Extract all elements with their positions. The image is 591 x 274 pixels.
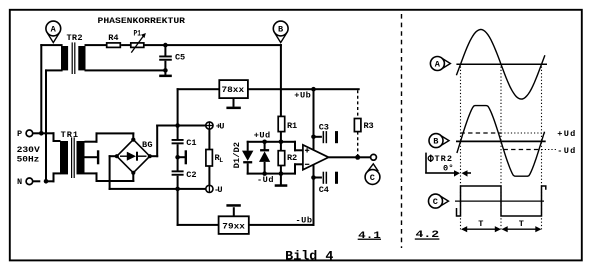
junction dot -U rail: [175, 187, 180, 192]
wire R4 to P1: [121, 44, 130, 46]
svg-text:R1: R1: [287, 121, 297, 131]
terminal N: [17, 177, 40, 187]
label +Ub: [294, 91, 311, 101]
waveform B balloon: [429, 134, 449, 148]
waveform B axis: [456, 140, 546, 142]
junction dot C5 top: [163, 43, 168, 48]
+Ud rail: [247, 141, 296, 143]
junction dot C3: [311, 135, 316, 140]
label -Ud: [257, 175, 274, 185]
potentiometer P1: [131, 29, 146, 53]
svg-text:+Ud: +Ud: [254, 130, 271, 140]
transformer TR1: [60, 130, 85, 178]
label 4.1: [358, 231, 381, 242]
svg-text:C2: C2: [186, 170, 196, 180]
junction dots -Ud rail: [262, 171, 283, 176]
capacitor C1: [172, 126, 197, 158]
svg-text:-Ud: -Ud: [257, 175, 274, 185]
ground below C5: [159, 70, 172, 77]
resistor R2: [278, 142, 297, 175]
svg-text:T: T: [478, 219, 483, 229]
waveform A axis: [456, 63, 547, 65]
junction dot C1/C2 midpoint: [175, 155, 180, 160]
svg-text:L: L: [219, 157, 223, 164]
svg-text:+Ub: +Ub: [294, 91, 311, 101]
phase annotation TR2 0 degrees: [425, 153, 471, 177]
junction dot N: [44, 179, 49, 184]
junction dot +U rail: [175, 123, 180, 128]
capacitor C3: [314, 123, 339, 144]
period T arrow 1: [461, 219, 501, 232]
terminal P: [17, 129, 40, 139]
dotted vertical marker 3: [541, 67, 543, 232]
terminal +U: [206, 122, 225, 132]
wire P1 to node B corner: [144, 44, 282, 46]
period T arrow 2: [502, 219, 542, 232]
op-amp U1: [303, 145, 329, 170]
svg-text:PHASENKORREKTUR: PHASENKORREKTUR: [98, 16, 186, 26]
wire +Ub to op-amp V+: [313, 89, 315, 150]
svg-text:BG: BG: [142, 140, 153, 150]
bridge rectifier BG: [115, 138, 153, 175]
svg-text:230V: 230V: [17, 145, 41, 155]
svg-text:C: C: [370, 173, 375, 183]
svg-text:N: N: [17, 177, 22, 187]
waveform A sine: [456, 30, 545, 100]
svg-text:50Hz: 50Hz: [17, 155, 40, 165]
wire P to TR1 primary top elbow: [41, 132, 60, 142]
wire vertical A/P: [40, 44, 42, 134]
label -Ub: [296, 215, 313, 225]
resistor R3 with dashed connections: [354, 90, 373, 156]
ground below 78xx: [226, 98, 240, 109]
wire op-amp output: [329, 156, 371, 158]
svg-text:0°: 0°: [443, 163, 454, 173]
svg-text:C: C: [433, 197, 438, 207]
label 230V 50Hz: [17, 145, 41, 165]
wire top rail left (A to TR2 primary): [40, 44, 62, 46]
junction dot C4: [311, 175, 316, 180]
resistor R1: [278, 116, 297, 131]
svg-text:Bild 4: Bild 4: [285, 248, 333, 263]
label PHASENKORREKTUR: [98, 16, 186, 26]
junction dot P: [39, 131, 44, 136]
resistor RL: [206, 129, 223, 188]
terminal C output: [371, 154, 377, 160]
svg-text:C5: C5: [175, 53, 185, 63]
wire +U to 78xx input: [177, 88, 220, 125]
dashed -Ud level line: [504, 146, 576, 156]
waveform C axis: [455, 200, 544, 202]
node C balloon: [365, 164, 380, 185]
wire TR1 secondary bottom to BG bottom: [85, 172, 135, 182]
wire TR1 secondary top to BG top: [85, 132, 135, 142]
svg-text:+U: +U: [216, 122, 225, 132]
wire +Ud rail to op-amp plus input: [294, 141, 304, 152]
terminal -U: [206, 185, 223, 195]
wire vertical TR2-bottom to N: [45, 69, 47, 182]
-Ud rail: [247, 173, 296, 175]
waveform A balloon: [430, 57, 450, 71]
wire TR2 primary bottom: [45, 69, 63, 71]
ground below -Ud rail: [275, 174, 288, 187]
svg-text:TR2: TR2: [67, 33, 83, 43]
junction dot output/R3: [355, 155, 360, 160]
wire 79xx output -Ub rail: [249, 224, 315, 226]
dashed +Ud level line: [461, 129, 576, 139]
svg-text:4.1: 4.1: [358, 231, 381, 242]
wire TR2 secondary bottom to C5: [85, 69, 166, 71]
svg-text:R4: R4: [108, 33, 118, 43]
svg-text:B: B: [433, 137, 438, 147]
svg-text:C1: C1: [186, 138, 196, 148]
transformer TR2: [61, 33, 86, 74]
diode D1: [242, 141, 253, 175]
junction dot +Ub rail: [311, 87, 316, 92]
wire BG minus to -U rail: [109, 155, 210, 190]
wire node B vertical: [280, 44, 282, 116]
label Bild 4: [285, 248, 333, 263]
svg-text:TR1: TR1: [61, 130, 79, 140]
waveform C balloon: [429, 194, 449, 208]
ground above 79xx: [226, 204, 240, 216]
ground at TR1 center tap: [85, 150, 100, 164]
svg-text:P1: P1: [134, 29, 142, 39]
svg-text:P: P: [17, 129, 22, 139]
svg-text:-U: -U: [214, 185, 223, 195]
capacitor C4: [314, 172, 339, 196]
svg-text:-Ud: -Ud: [557, 146, 575, 156]
separator dashed line between 4.1 and 4.2: [401, 14, 403, 248]
svg-text:R3: R3: [364, 121, 374, 131]
wire BG plus to +U rail: [149, 125, 210, 158]
wire N to TR1 primary bottom elbow: [46, 172, 61, 182]
node A balloon: [46, 21, 61, 42]
wire TR2 secondary top to R4: [85, 44, 107, 46]
capacitor C5: [159, 45, 185, 70]
svg-text:A: A: [51, 25, 57, 35]
node B balloon: [273, 21, 288, 42]
svg-text:C4: C4: [319, 185, 329, 195]
svg-text:+Ud: +Ud: [557, 129, 575, 139]
dotted vertical marker 1: [460, 67, 462, 232]
ground at C1/C2 midpoint: [178, 150, 187, 164]
svg-text:-Ub: -Ub: [296, 215, 313, 225]
svg-text:B: B: [278, 25, 283, 35]
wire 78xx output +Ub rail: [248, 88, 360, 90]
capacitor C2: [172, 157, 197, 190]
wire -Ud rail to op-amp minus input: [294, 163, 304, 174]
regulator 79xx: [219, 216, 249, 234]
svg-text:A: A: [435, 60, 441, 70]
waveform C square wave: [457, 186, 546, 216]
label +Ud: [254, 130, 271, 140]
wire -U rail to 79xx input: [177, 189, 220, 226]
label 4.2: [415, 230, 440, 241]
svg-text:C3: C3: [319, 123, 329, 133]
svg-text:79xx: 79xx: [222, 222, 245, 232]
junction dot C5 bottom: [163, 68, 168, 73]
wire R1 to +Ud rail: [280, 132, 282, 142]
resistor R4: [107, 33, 121, 47]
dotted vertical marker 2: [500, 67, 502, 232]
diode D2: [259, 142, 270, 175]
svg-text:D1/D2: D1/D2: [232, 142, 242, 169]
label D1/D2 rotated: [232, 142, 242, 169]
svg-text:T: T: [519, 219, 524, 229]
svg-text:78xx: 78xx: [222, 85, 245, 95]
svg-text:R2: R2: [287, 153, 297, 163]
wire op-amp V- to -Ub: [313, 164, 315, 226]
regulator 78xx: [219, 80, 248, 98]
waveform B clipped sine: [457, 106, 545, 177]
junction dots +Ud rail: [262, 140, 283, 145]
